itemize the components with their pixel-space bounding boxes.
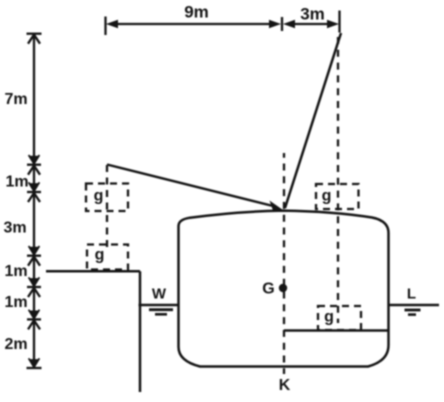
segment 1m arrows b (28, 257, 40, 286)
boom arrowhead (270, 201, 284, 213)
segment 1m arrows a (28, 166, 40, 191)
left dimension bottom bar (27, 367, 42, 369)
dimension tick right (338, 11, 340, 33)
svg-text:K: K (279, 377, 291, 394)
quay wall (139, 271, 142, 392)
left dimension top bar (27, 33, 42, 35)
quay top line (46, 270, 140, 273)
weight box upper left (86, 184, 128, 212)
dimension 9m line (106, 20, 281, 28)
weight box upper right (316, 184, 359, 209)
waterline W (139, 304, 179, 306)
water symbol W bar2 (155, 313, 167, 316)
svg-text:g: g (94, 188, 104, 205)
segment 3m arrows (28, 193, 40, 255)
segment 1m arrows c (28, 288, 40, 319)
centre of gravity G dot (279, 284, 287, 292)
waterline L (389, 304, 439, 306)
dashed line right x338 (337, 37, 339, 323)
water symbol L bar1 (405, 309, 421, 312)
svg-text:3m: 3m (3, 219, 26, 236)
svg-text:3m: 3m (300, 4, 325, 23)
left dimension vertical line (33, 34, 35, 368)
weight box lower left (87, 245, 128, 270)
segment 2m arrows (28, 320, 40, 367)
dashed line left x107 (106, 165, 108, 251)
weight box lower right (318, 306, 361, 330)
segment 7m arrows (28, 35, 40, 164)
left dimension tick y255 (27, 255, 41, 257)
dimension tick left (104, 17, 106, 36)
svg-text:W: W (152, 286, 167, 303)
tank top line (284, 329, 389, 332)
ship hull (179, 211, 389, 367)
derrick boom line (107, 165, 273, 207)
svg-text:L: L (407, 286, 416, 303)
svg-text:G: G (262, 281, 274, 298)
water symbol L bar2 (408, 313, 416, 316)
left dimension tick y192 (27, 191, 41, 193)
svg-text:1m: 1m (4, 294, 27, 311)
svg-text:2m: 2m (4, 336, 27, 353)
left dimension tick y287 (27, 286, 41, 288)
svg-text:1m: 1m (4, 263, 27, 280)
dashed centreline x284 (283, 153, 285, 374)
svg-text:7m: 7m (4, 91, 27, 108)
water symbol W bar1 (149, 308, 173, 311)
dimension tick middle (281, 17, 283, 31)
svg-text:9m: 9m (184, 3, 209, 22)
dimension 3m line (283, 20, 339, 28)
mast line (285, 33, 341, 208)
left dimension tick y164 (27, 164, 41, 166)
left dimension tick y319 (27, 318, 41, 320)
svg-text:g: g (324, 309, 334, 326)
svg-text:g: g (322, 188, 332, 205)
svg-text:1m: 1m (5, 173, 28, 190)
svg-text:g: g (95, 247, 105, 264)
